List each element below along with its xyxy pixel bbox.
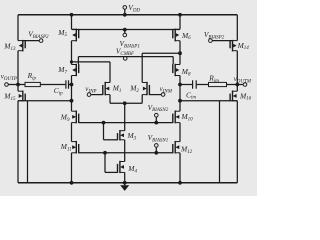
label M8: [181, 67, 191, 77]
terminal v_INM: [161, 93, 165, 97]
label M15: [3, 91, 16, 101]
svg-text:M12: M12: [180, 145, 193, 155]
junction M4 gate tap on V_BIASN1: [103, 151, 107, 155]
label M7: [57, 65, 67, 75]
wire Rip to Cip: [40, 84, 65, 86]
label M16: [239, 91, 252, 101]
wire M7 drain to node A and M9: [71, 76, 73, 112]
svg-text:M1: M1: [112, 84, 122, 94]
wire M15 gate line to node A: [18, 100, 72, 102]
wire M2 gate to v_INM: [149, 94, 161, 96]
wire M14 gate to bias terminal: [212, 40, 232, 42]
node A compensation junction: [70, 83, 74, 87]
transistor M2: [142, 82, 149, 96]
wire M5 drain to M7 source: [71, 41, 73, 65]
tail node wire: [110, 102, 142, 104]
label M11: [60, 142, 72, 152]
wire M15 source to VSS rail: [17, 101, 19, 183]
junction V_BIASN1 terminal: [154, 151, 158, 155]
wire M15 source return: [27, 101, 29, 183]
svg-text:VDD: VDD: [128, 3, 140, 13]
svg-text:M14: M14: [237, 41, 250, 51]
svg-text:vOUTP: vOUTP: [1, 72, 17, 81]
wire M14 drain to vOUTM node: [236, 51, 238, 91]
junction on VDD rail (M6 branch): [178, 13, 182, 17]
label M3: [127, 131, 137, 141]
wire v_INP to M1 gate: [91, 94, 104, 96]
terminal V_BIASN2: [155, 113, 159, 117]
VDD supply terminal: [123, 6, 127, 15]
wire M2 source to tail: [141, 95, 143, 104]
wire M1 drain horizontal: [72, 61, 111, 63]
label M5: [57, 28, 67, 38]
node vOUTM junction: [235, 83, 239, 87]
label V_BIASP2 (right): [204, 30, 225, 40]
wire M3 gate tap vertical: [103, 123, 105, 140]
junction M1 drain on column A: [70, 60, 73, 63]
wire rail to M5 source: [71, 15, 73, 29]
resistor R_im: [209, 82, 227, 86]
V_BIASN2 terminal stub: [155, 117, 157, 123]
wire M1 drain vertical: [109, 62, 111, 83]
terminal V_BIASP1: [123, 33, 127, 37]
wire M1 source to tail: [109, 95, 111, 104]
transistor M11: [72, 141, 79, 154]
transistor M5: [72, 29, 79, 42]
junction M3 gate tap on V_BIASN2: [102, 121, 106, 125]
label M14: [237, 41, 250, 51]
wire M10 source to M12 drain: [179, 123, 181, 142]
wire M4 source to VSS rail: [124, 172, 126, 182]
label M2: [129, 84, 139, 94]
wire Cim to Rim: [197, 84, 209, 86]
wire tail to M3 drain: [124, 103, 126, 130]
wire M2 drain vertical: [141, 53, 143, 82]
node B second stage tap junction: [178, 99, 182, 103]
power rail VDD (top): [18, 14, 237, 16]
svg-text:M6: M6: [181, 31, 191, 41]
node vOUTP junction: [16, 83, 20, 87]
label v_OUTP: [1, 72, 17, 81]
label M12: [180, 145, 193, 155]
label M9: [60, 113, 70, 123]
label V_BIASP1: [120, 39, 140, 49]
label v_INP: [85, 85, 96, 94]
transistor M12: [173, 141, 180, 154]
svg-text:VBIASP1: VBIASP1: [120, 39, 140, 49]
tail node junction: [123, 101, 127, 105]
svg-text:M10: M10: [181, 112, 194, 122]
svg-text:Rip: Rip: [27, 71, 37, 81]
transistor M7: [72, 64, 79, 76]
wire rail to M6 source: [179, 15, 181, 29]
junction on V_BIASP1 line: [123, 28, 127, 32]
svg-text:VBIASP2: VBIASP2: [204, 30, 225, 40]
VSS rail (bottom): [18, 182, 237, 184]
svg-text:M13: M13: [3, 41, 16, 51]
terminal V_CMBF: [123, 57, 127, 61]
wire M3 gate tap horizontal: [104, 139, 118, 141]
svg-text:Rim: Rim: [208, 74, 219, 84]
label M1: [112, 84, 122, 94]
node B compensation junction: [178, 83, 182, 87]
junction on VSS rail (left): [70, 181, 74, 185]
wire M8 drain to node B and M10: [179, 76, 181, 112]
label V_BIASN1: [148, 133, 169, 143]
wire M4 gate tap vertical: [104, 153, 106, 173]
wire M7 gate stub: [77, 57, 79, 65]
bias line V_BIASP1 (M5-M6 gates): [72, 29, 181, 31]
wire Cip to node A: [69, 84, 72, 86]
wire M13 gate to bias terminal: [23, 40, 40, 42]
svg-text:M5: M5: [57, 28, 67, 38]
label R_im: [208, 74, 219, 84]
svg-text:VBIASN2: VBIASN2: [148, 103, 169, 113]
wire M2 drain horizontal: [142, 52, 180, 54]
V_BIASN1 terminal stub: [155, 147, 157, 153]
label V_BIASN2: [148, 103, 169, 113]
label V_CMBF: [116, 46, 135, 56]
wire M16 source return: [219, 101, 221, 183]
terminal V_BIASN1: [155, 144, 159, 148]
svg-text:vOUTM: vOUTM: [234, 75, 252, 84]
wire node B to Cim: [180, 84, 192, 86]
svg-text:M7: M7: [57, 65, 67, 75]
junction M2 drain on column B: [178, 51, 182, 55]
transistor M14: [230, 40, 237, 52]
wire M3 source to M4 drain: [124, 140, 126, 162]
wire Rim to vOUTM node: [227, 84, 238, 86]
capacitor C_im: [193, 80, 197, 88]
resistor R_ip: [25, 82, 40, 86]
terminal vOUTP: [5, 83, 9, 87]
svg-text:M3: M3: [127, 131, 137, 141]
wire vOUTP stub: [8, 84, 18, 86]
junction on VDD rail (M5 branch): [70, 13, 74, 17]
terminal v_INP: [87, 93, 91, 97]
transistor M16: [230, 91, 237, 102]
label v_INM: [160, 85, 173, 94]
svg-text:M2: M2: [129, 84, 139, 94]
wire M16 source to VSS rail: [236, 101, 238, 183]
svg-text:Cim: Cim: [186, 90, 196, 100]
junction on VSS rail (right): [178, 181, 182, 185]
wire M12 source to VSS rail: [179, 153, 181, 183]
transistor M4: [118, 161, 125, 173]
transistor M6: [173, 29, 180, 42]
junction on VDD rail (VDD tap): [123, 13, 127, 17]
svg-text:vINP: vINP: [85, 85, 96, 94]
wire M4 gate tap horizontal: [105, 171, 118, 173]
node A second stage tap junction: [70, 99, 74, 103]
svg-text:M15: M15: [3, 91, 16, 101]
bias line V_BIASN2 (M9-M10 gates): [78, 122, 173, 124]
svg-text:VBIASP2: VBIASP2: [28, 29, 49, 39]
wire M11 source to VSS rail: [71, 153, 73, 183]
label v_OUTM: [234, 75, 252, 84]
bias line V_BIASN1 (M11-M12 gates): [78, 152, 173, 154]
label C_im: [186, 90, 196, 100]
svg-text:M4: M4: [127, 164, 137, 174]
transistor M1: [103, 82, 110, 96]
V_BIASP1 terminal stub: [124, 30, 126, 34]
wire VDD rail to M14 source: [236, 15, 238, 41]
label M13: [3, 41, 16, 51]
transistor M8: [173, 64, 180, 76]
wire vOUTP to M15 drain: [17, 85, 19, 92]
label C_ip: [54, 86, 63, 96]
label M4: [127, 164, 137, 174]
terminal vOUTM: [243, 83, 247, 87]
wire M16 gate line to node B: [180, 100, 237, 102]
wire VDD rail to M13 source: [17, 15, 19, 41]
wire vOUTM stub: [237, 84, 243, 86]
terminal V_BIASP2 (right): [209, 39, 213, 43]
label V_DD: [128, 3, 140, 13]
transistor M13: [18, 40, 25, 52]
ground: [120, 183, 129, 191]
junction on VSS rail (center): [123, 181, 127, 185]
svg-text:M11: M11: [60, 142, 72, 152]
wire M13 drain to vOUTP node: [17, 51, 19, 85]
transistor M9: [72, 111, 79, 124]
wire M8 gate stub: [172, 57, 174, 65]
label M10: [181, 112, 194, 122]
svg-text:M8: M8: [181, 67, 191, 77]
transistor M3: [118, 130, 125, 141]
junction V_BIASN2 terminal: [154, 121, 158, 125]
terminal V_BIASP2 (left): [39, 39, 43, 43]
wire M9 source to M11 drain: [71, 123, 73, 142]
svg-text:M9: M9: [60, 113, 70, 123]
transistor M10: [173, 111, 180, 124]
label R_ip: [27, 71, 37, 81]
capacitor C_ip: [66, 80, 69, 88]
wire vOUTP to resistor Rip: [18, 84, 25, 86]
svg-text:M16: M16: [239, 91, 252, 101]
transistor M15: [18, 91, 25, 102]
wire M6 drain to M8 source: [179, 41, 181, 65]
bias line V_CMBF (M7-M8 gates): [78, 56, 173, 58]
svg-text:vINM: vINM: [160, 85, 173, 94]
label M6: [181, 31, 191, 41]
svg-text:Cip: Cip: [54, 86, 63, 96]
label V_BIASP2 (left): [28, 29, 49, 39]
svg-text:VBIASN1: VBIASN1: [148, 133, 169, 143]
